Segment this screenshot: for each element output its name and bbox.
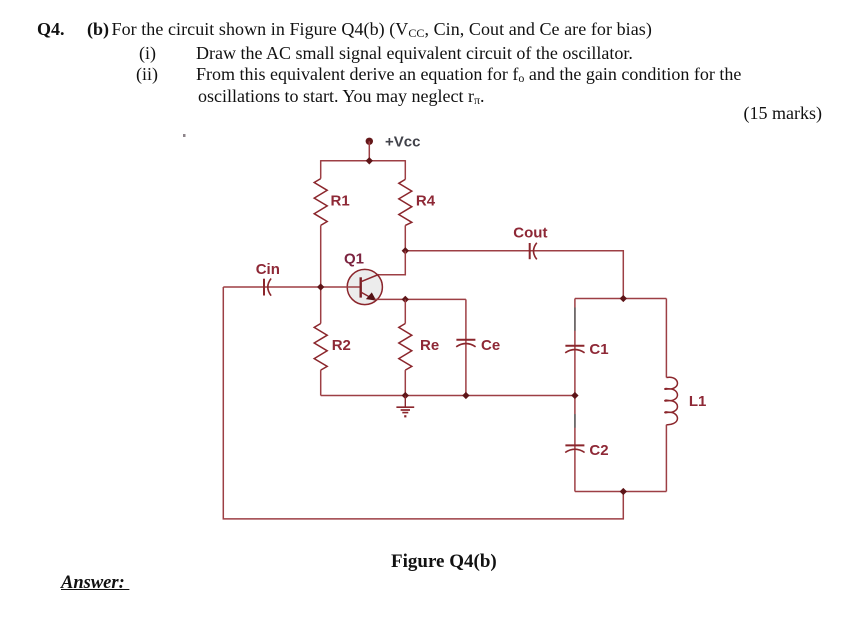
capacitor Cin — [264, 279, 271, 296]
marks — [744, 104, 822, 122]
wire tank bottom rail — [575, 491, 667, 493]
resistor Re — [399, 324, 412, 371]
svg-text:R1: R1 — [331, 192, 350, 209]
node rail-Ce junction — [462, 392, 469, 399]
wire L1 bottom lead — [665, 425, 667, 492]
capacitor Ce — [456, 340, 475, 347]
wire R2 bottom lead — [320, 370, 322, 395]
wire emitter row — [375, 298, 466, 300]
power terminal +Vcc dot — [366, 138, 373, 145]
node collector junction — [402, 247, 409, 254]
wire collector link — [378, 251, 405, 275]
node tank bottom junction — [620, 488, 627, 495]
svg-text:+Vcc: +Vcc — [385, 134, 420, 151]
lead artifact above C1 — [574, 308, 576, 331]
svg-text:C1: C1 — [589, 341, 608, 358]
lead artifact above C2 — [574, 414, 576, 428]
svg-text:C2: C2 — [589, 442, 608, 459]
capacitor C1 — [565, 346, 584, 353]
resistor R1 — [314, 179, 327, 226]
wire Ce branch — [465, 299, 467, 395]
wire C1-C2 branch — [574, 299, 576, 492]
wire left feedback loop — [223, 287, 623, 519]
svg-text:Ce: Ce — [481, 337, 500, 354]
node rail-Re junction — [402, 392, 409, 399]
question text line 3 — [136, 65, 158, 83]
node tank top junction — [620, 295, 627, 302]
wire R4 top lead — [404, 160, 406, 179]
inductor L1 — [665, 377, 678, 425]
scan speck — [183, 134, 186, 137]
wire top rail — [321, 160, 406, 162]
wire R4 bottom lead — [404, 225, 406, 250]
question text line 2 — [139, 44, 156, 62]
svg-text:Re: Re — [420, 337, 439, 354]
wire Vcc stub — [368, 141, 370, 161]
wire base row — [223, 286, 359, 288]
capacitor Cout — [530, 243, 537, 260]
svg-text:Cout: Cout — [513, 225, 547, 242]
svg-text:Q1: Q1 — [344, 250, 364, 267]
wire collector row to tank — [405, 251, 623, 299]
wire R1-R2 vertical (through base node) — [320, 225, 322, 323]
wire Re top lead — [404, 299, 406, 323]
resistor R4 — [399, 179, 412, 225]
capacitor C2 — [565, 445, 584, 452]
ground — [396, 396, 414, 418]
svg-text:L1: L1 — [689, 393, 707, 410]
transistor Q1 — [347, 269, 382, 304]
wire L1 top lead — [665, 299, 667, 378]
node C mid junction — [571, 392, 578, 399]
question text line 1 — [37, 20, 65, 38]
svg-text:Cin: Cin — [256, 261, 280, 278]
node Vcc junction — [366, 157, 373, 164]
node emitter junction — [402, 296, 409, 303]
node base junction — [317, 283, 324, 290]
question text line 4 — [198, 87, 485, 105]
svg-text:R2: R2 — [332, 337, 351, 354]
wire R1 top lead — [320, 160, 322, 179]
svg-text:R4: R4 — [416, 192, 436, 209]
wire Re bottom lead — [404, 370, 406, 395]
resistor R2 — [314, 324, 327, 371]
figure caption — [391, 552, 497, 571]
answer heading — [61, 574, 129, 593]
wire ground rail — [321, 395, 575, 397]
wire tank top rail — [575, 298, 667, 300]
